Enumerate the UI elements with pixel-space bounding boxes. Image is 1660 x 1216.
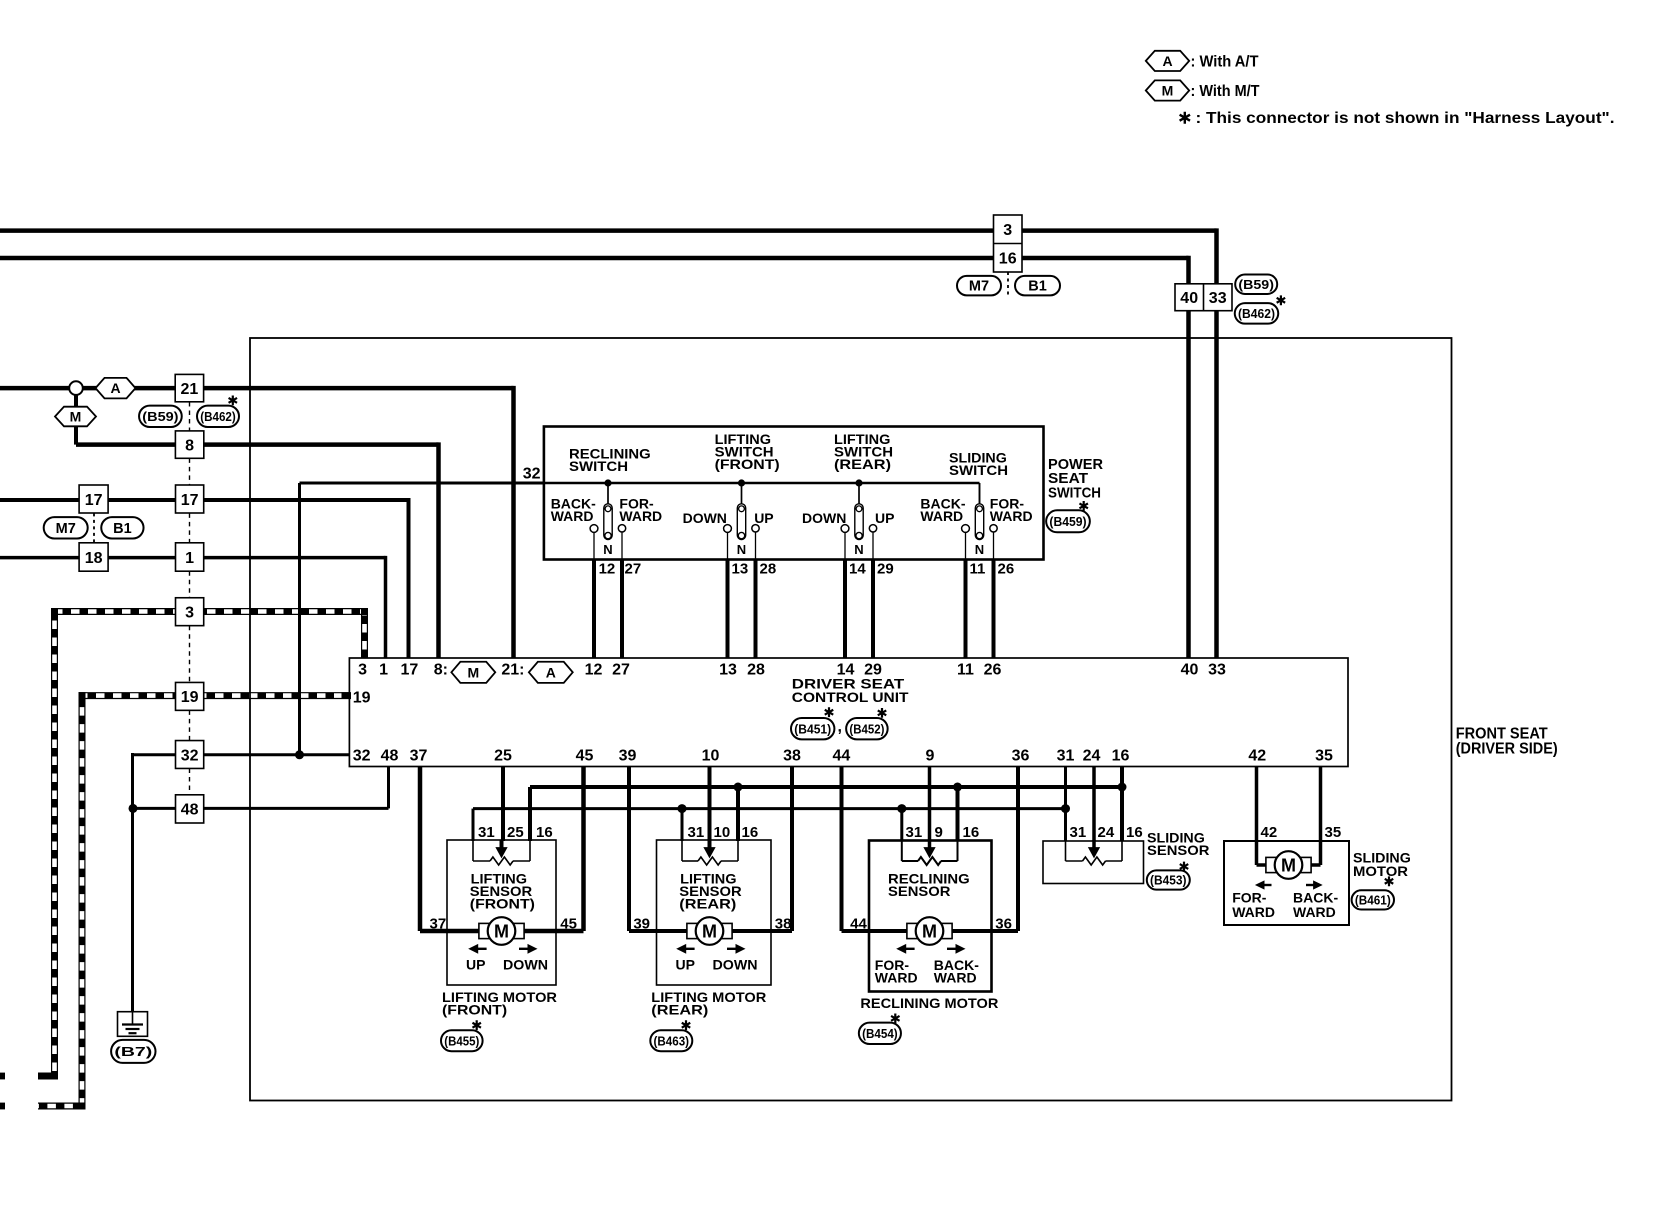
svg-text:(B7): (B7)	[114, 1044, 152, 1059]
svg-text:42: 42	[1248, 748, 1266, 765]
svg-text:(REAR): (REAR)	[679, 895, 736, 911]
svg-text:16: 16	[1112, 748, 1130, 765]
svg-text:: With M/T: : With M/T	[1191, 83, 1260, 100]
svg-text:19: 19	[353, 689, 371, 706]
svg-text:31: 31	[1070, 824, 1087, 841]
svg-text:31: 31	[906, 824, 923, 841]
svg-text:32: 32	[181, 747, 199, 764]
svg-text:M7: M7	[56, 521, 76, 537]
svg-text:SWITCH: SWITCH	[1048, 484, 1101, 501]
svg-text:12: 12	[599, 561, 616, 578]
svg-text:M: M	[70, 409, 82, 425]
svg-text:14: 14	[849, 561, 866, 578]
svg-text:(B455): (B455)	[444, 1033, 479, 1048]
svg-text:1: 1	[185, 550, 194, 567]
svg-text:21: 21	[181, 381, 199, 398]
svg-text:(B453): (B453)	[1150, 873, 1187, 888]
svg-text:M: M	[922, 921, 937, 941]
svg-text:DOWN: DOWN	[503, 956, 548, 972]
svg-text:WARD: WARD	[551, 508, 594, 524]
svg-text:SWITCH: SWITCH	[569, 458, 628, 474]
svg-text:27: 27	[612, 662, 630, 679]
svg-text:(B462): (B462)	[1238, 306, 1275, 321]
svg-text:MOTOR: MOTOR	[1353, 863, 1408, 879]
svg-text:32: 32	[353, 748, 371, 765]
svg-text:3: 3	[185, 604, 194, 621]
svg-text:1: 1	[379, 662, 388, 679]
svg-text:11: 11	[970, 561, 986, 578]
svg-text:35: 35	[1315, 748, 1333, 765]
svg-text:16: 16	[1126, 824, 1143, 841]
svg-text:A: A	[110, 380, 120, 396]
svg-text:UP: UP	[875, 510, 894, 526]
svg-text:24: 24	[1083, 748, 1101, 765]
svg-text:M7: M7	[969, 279, 989, 295]
svg-text:25: 25	[507, 824, 524, 841]
svg-text:38: 38	[775, 916, 792, 933]
svg-text:38: 38	[783, 748, 801, 765]
svg-text:24: 24	[1098, 824, 1115, 841]
svg-text:(REAR): (REAR)	[834, 456, 891, 472]
svg-text:DOWN: DOWN	[683, 510, 727, 526]
svg-text:(B452): (B452)	[849, 721, 884, 736]
svg-text:44: 44	[833, 748, 851, 765]
svg-text:10: 10	[702, 748, 720, 765]
svg-text:(REAR): (REAR)	[651, 1002, 708, 1018]
svg-text:29: 29	[877, 561, 894, 578]
svg-text:UP: UP	[754, 510, 773, 526]
svg-text:16: 16	[742, 824, 759, 841]
svg-text:13: 13	[732, 561, 749, 578]
svg-text:(B454): (B454)	[862, 1026, 898, 1041]
svg-text:31: 31	[688, 824, 705, 841]
svg-text:M: M	[494, 921, 509, 941]
svg-text:(DRIVER SIDE): (DRIVER SIDE)	[1456, 741, 1558, 758]
svg-text:RECLINING MOTOR: RECLINING MOTOR	[860, 995, 998, 1011]
svg-text:42: 42	[1261, 824, 1278, 841]
svg-text:36: 36	[995, 916, 1012, 933]
svg-text:M: M	[1162, 83, 1174, 99]
svg-text:45: 45	[576, 748, 594, 765]
svg-text:39: 39	[633, 916, 650, 933]
svg-text:SENSOR: SENSOR	[1147, 842, 1209, 858]
svg-text:WARD: WARD	[920, 508, 963, 524]
svg-text:28: 28	[747, 662, 765, 679]
svg-text:,: ,	[838, 719, 842, 736]
svg-text:48: 48	[181, 802, 199, 819]
svg-text:N: N	[603, 542, 612, 557]
svg-text:10: 10	[714, 824, 731, 841]
svg-text:19: 19	[181, 689, 199, 706]
svg-text:31: 31	[1057, 748, 1075, 765]
svg-text:16: 16	[999, 250, 1017, 267]
svg-text:SENSOR: SENSOR	[888, 883, 950, 899]
svg-text:WARD: WARD	[1293, 904, 1336, 920]
svg-text:N: N	[975, 542, 984, 557]
svg-text:3: 3	[1003, 222, 1012, 239]
svg-text:(B451): (B451)	[794, 721, 831, 736]
svg-text:(B462): (B462)	[200, 409, 236, 424]
svg-text:(B59): (B59)	[1238, 277, 1274, 292]
svg-text:8: 8	[185, 437, 194, 454]
svg-text:40: 40	[1181, 662, 1199, 679]
svg-text:18: 18	[85, 550, 103, 567]
svg-text:31: 31	[478, 824, 495, 841]
svg-text:27: 27	[625, 561, 642, 578]
svg-text:CONTROL UNIT: CONTROL UNIT	[792, 689, 909, 705]
svg-text:B1: B1	[1028, 279, 1047, 295]
svg-text:26: 26	[984, 662, 1002, 679]
svg-text:32: 32	[523, 466, 541, 483]
svg-text:11: 11	[957, 662, 974, 679]
svg-text:WARD: WARD	[934, 969, 977, 985]
svg-text:17: 17	[401, 662, 419, 679]
svg-text:: This connector is not shown: : This connector is not shown in "Harnes…	[1196, 110, 1615, 127]
svg-text:9: 9	[935, 824, 943, 841]
svg-text:17: 17	[181, 492, 199, 509]
svg-text:WARD: WARD	[990, 508, 1033, 524]
svg-text:35: 35	[1325, 824, 1342, 841]
svg-text:16: 16	[963, 824, 980, 841]
svg-text:(B459): (B459)	[1049, 514, 1086, 529]
svg-text:17: 17	[85, 492, 103, 509]
svg-text:(FRONT): (FRONT)	[715, 456, 780, 472]
svg-text:(B461): (B461)	[1355, 893, 1391, 908]
svg-text:(B59): (B59)	[142, 409, 178, 424]
svg-text:WARD: WARD	[619, 508, 662, 524]
svg-text:37: 37	[410, 748, 428, 765]
svg-text:12: 12	[585, 662, 603, 679]
svg-text:13: 13	[719, 662, 737, 679]
svg-text:A: A	[1162, 53, 1172, 69]
svg-text:M: M	[1281, 855, 1296, 875]
svg-text:(FRONT): (FRONT)	[470, 895, 535, 911]
svg-text:26: 26	[998, 561, 1015, 578]
svg-text:40: 40	[1180, 290, 1198, 307]
svg-text:A: A	[546, 664, 556, 680]
svg-text:: With A/T: : With A/T	[1191, 53, 1259, 70]
svg-text:37: 37	[430, 916, 447, 933]
svg-text:DOWN: DOWN	[713, 956, 758, 972]
svg-text:B1: B1	[113, 521, 132, 537]
svg-text:WARD: WARD	[1232, 904, 1275, 920]
svg-text:N: N	[737, 542, 746, 557]
svg-text:SWITCH: SWITCH	[949, 462, 1008, 478]
svg-text:UP: UP	[676, 956, 695, 972]
svg-text:M: M	[467, 664, 479, 680]
svg-text:28: 28	[760, 561, 777, 578]
svg-text:3: 3	[358, 662, 367, 679]
svg-text:44: 44	[850, 916, 867, 933]
svg-text:(FRONT): (FRONT)	[442, 1002, 507, 1018]
svg-text:WARD: WARD	[875, 969, 918, 985]
svg-text:39: 39	[619, 748, 637, 765]
svg-text:21:: 21:	[501, 662, 524, 679]
svg-text:36: 36	[1012, 748, 1030, 765]
svg-text:9: 9	[926, 748, 935, 765]
svg-text:25: 25	[494, 748, 512, 765]
svg-text:UP: UP	[466, 956, 485, 972]
svg-text:(B463): (B463)	[654, 1033, 690, 1048]
svg-text:DOWN: DOWN	[802, 510, 846, 526]
svg-text:16: 16	[536, 824, 553, 841]
svg-text:8:: 8:	[434, 662, 448, 679]
svg-text:45: 45	[560, 916, 577, 933]
svg-text:33: 33	[1209, 290, 1227, 307]
svg-text:33: 33	[1208, 662, 1226, 679]
svg-text:M: M	[702, 921, 717, 941]
svg-text:48: 48	[381, 748, 399, 765]
svg-text:N: N	[854, 542, 863, 557]
